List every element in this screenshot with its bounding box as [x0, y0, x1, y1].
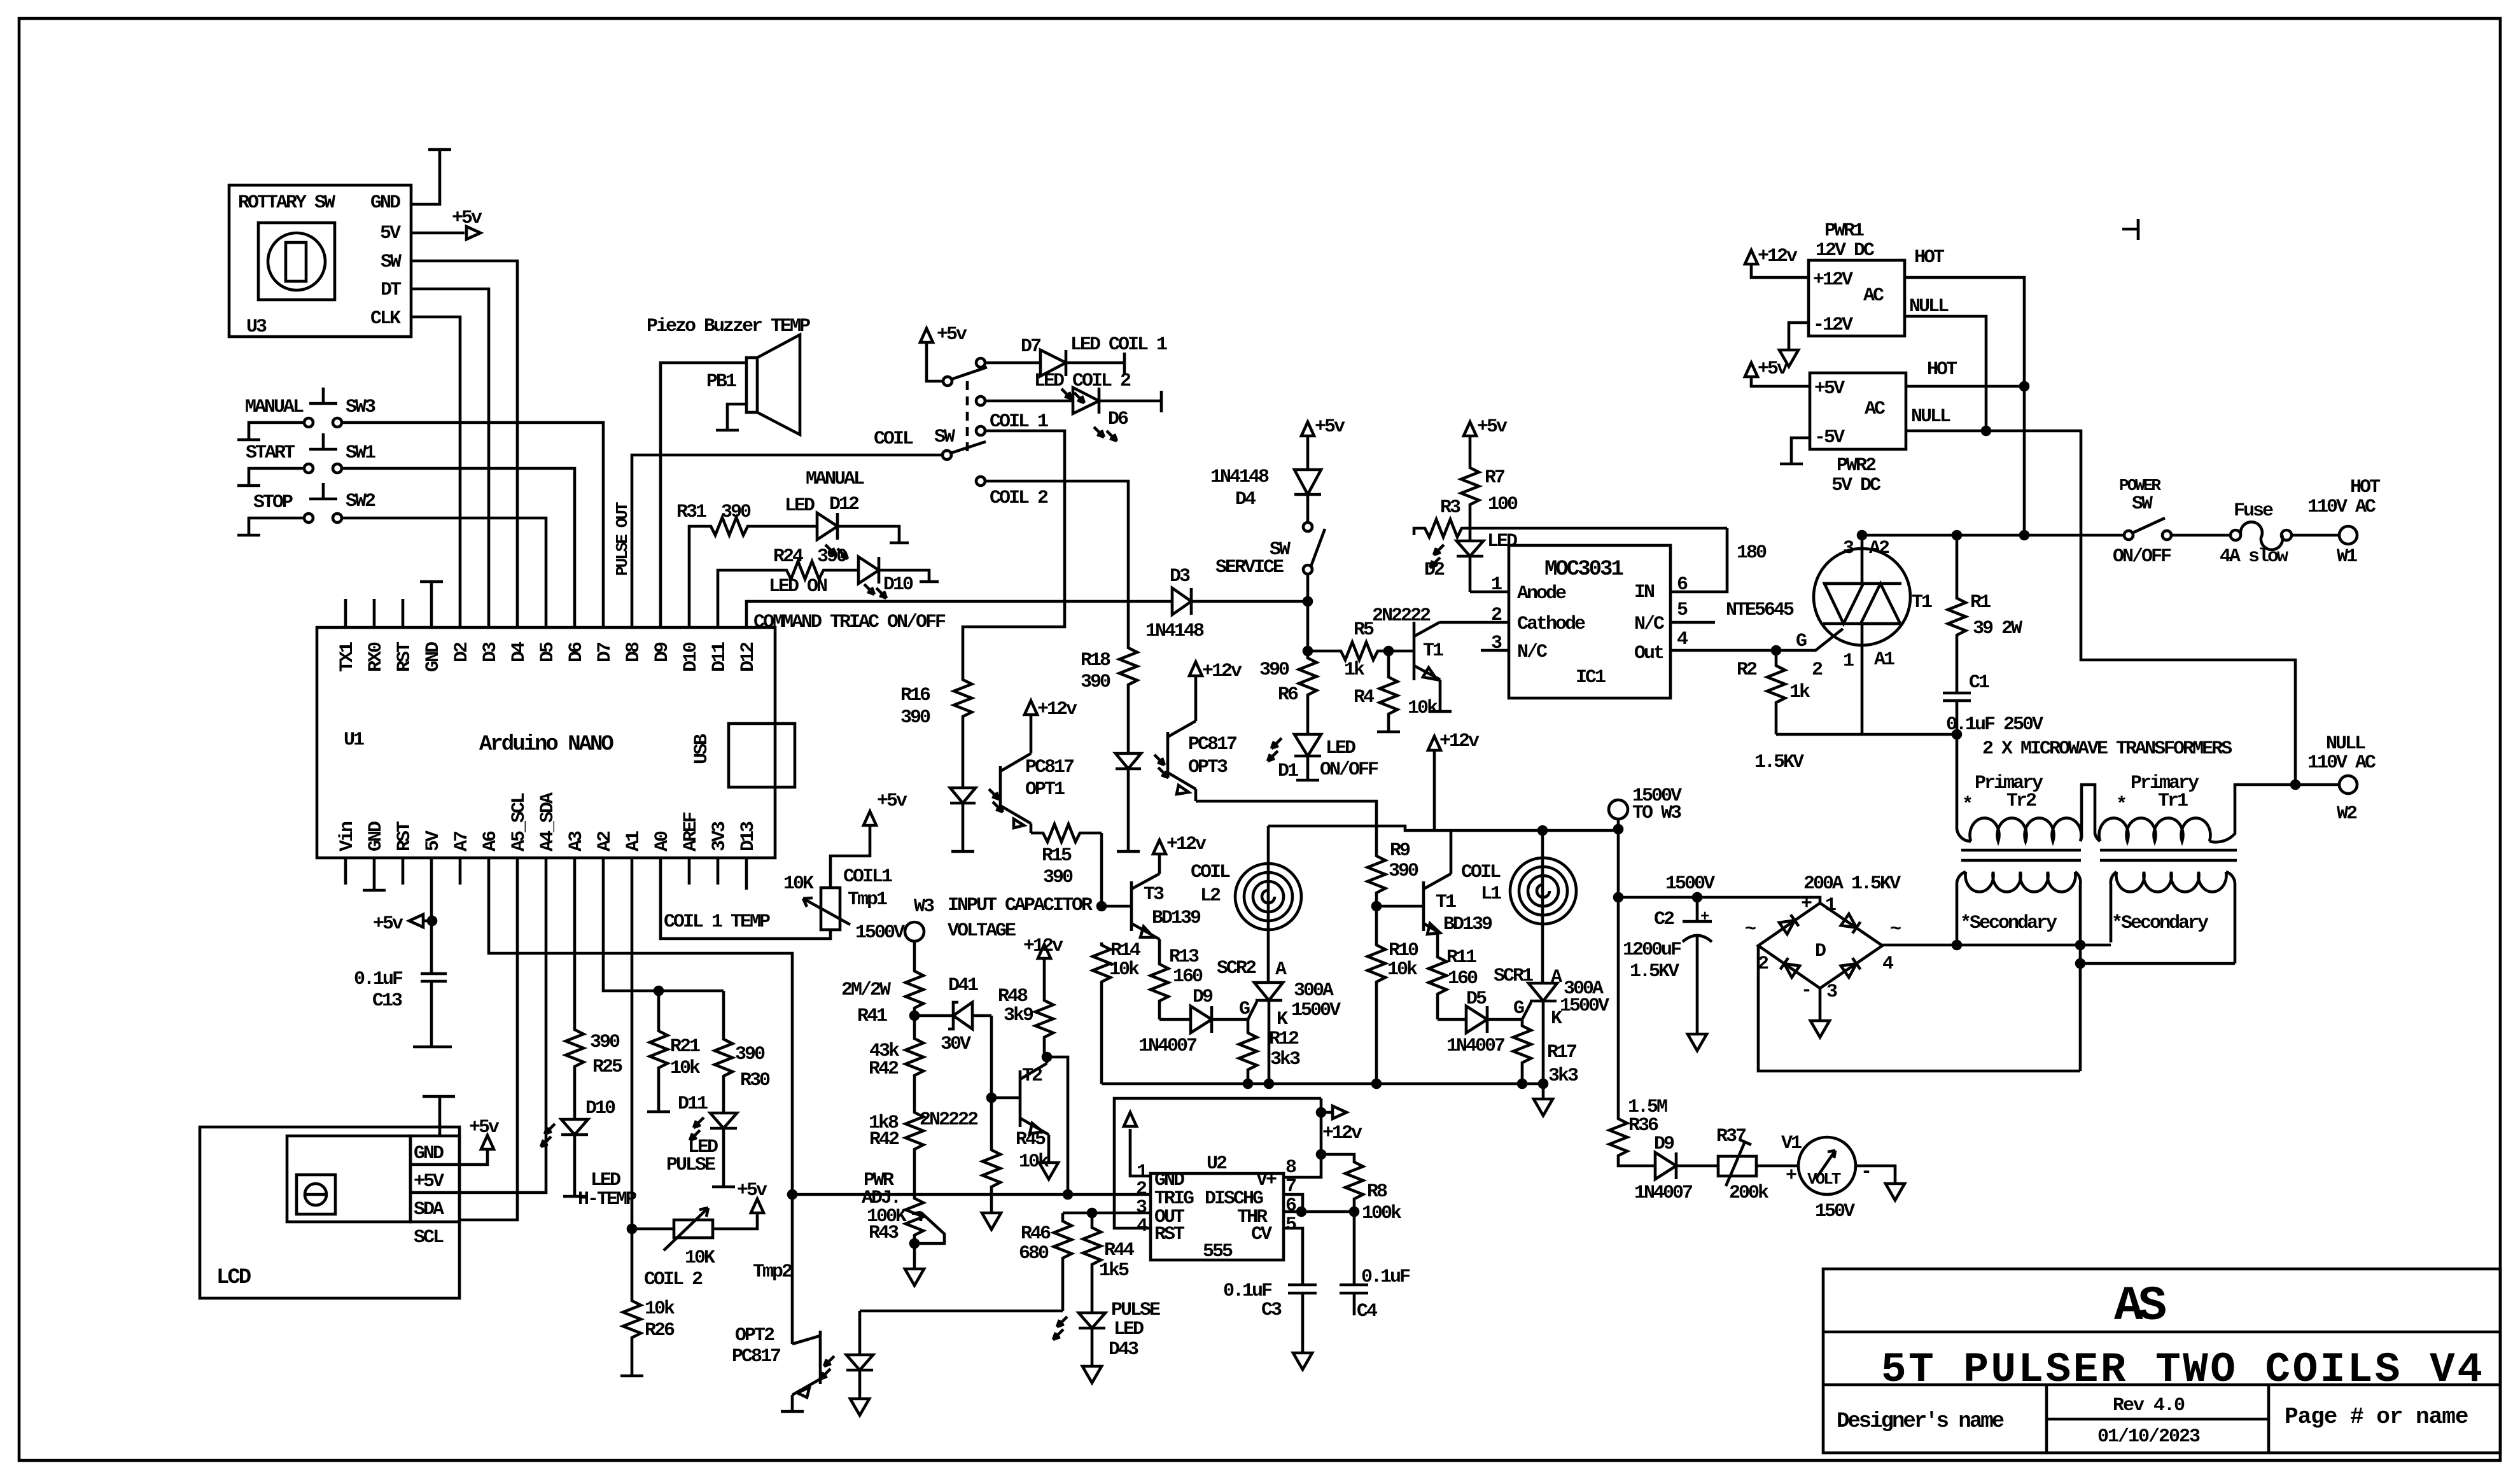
switch SW3 MANUAL — [304, 388, 342, 427]
junction dot TRIG A6 — [788, 1191, 796, 1198]
refdes R13 value — [1169, 946, 1203, 988]
svg-text:RX0: RX0 — [365, 642, 387, 672]
svg-text:A2: A2 — [1869, 538, 1889, 559]
junction dot HOT feed — [2020, 531, 2028, 539]
pin stub RST top — [402, 599, 405, 627]
svg-text:D4: D4 — [1235, 489, 1256, 510]
refdes R11 value — [1446, 947, 1478, 990]
wire COIL 1 to R16 — [963, 431, 1065, 677]
wire L1 feed down — [1541, 830, 1544, 983]
svg-text:+: + — [1801, 893, 1812, 915]
ground mark top right — [2122, 219, 2138, 240]
svg-text:D10: D10 — [883, 574, 913, 596]
bridge pin labels — [1745, 893, 1901, 1003]
terminal bar LED COIL 1 — [1123, 353, 1126, 374]
junction dot W3 — [1614, 825, 1622, 833]
wire W3 to R41 — [913, 941, 916, 969]
diode D4 1N4148 — [1294, 470, 1321, 494]
ground C2 — [1688, 1034, 1707, 1051]
svg-text:AC: AC — [1865, 398, 1886, 420]
capacitor C3 — [1288, 1285, 1317, 1353]
svg-text:3V3: 3V3 — [709, 822, 731, 851]
LCD module body — [200, 1127, 459, 1298]
svg-text:Tmp1: Tmp1 — [848, 889, 887, 911]
svg-text:HOT: HOT — [1914, 247, 1945, 269]
pin labels U1 top row — [337, 641, 759, 672]
svg-text:Page # or name: Page # or name — [2285, 1404, 2468, 1430]
svg-text:PWR1: PWR1 — [1824, 220, 1864, 242]
wire A3 to R25 — [573, 858, 577, 1027]
svg-text:D10: D10 — [680, 642, 702, 672]
svg-text:+5V: +5V — [414, 1171, 444, 1193]
svg-text:01/10/2023: 01/10/2023 — [2097, 1426, 2200, 1448]
ground rail SCR — [1534, 1084, 1553, 1116]
wire OPT3 emitter to R9 — [1196, 801, 1376, 853]
terminal W2 — [2339, 776, 2357, 794]
svg-text:R43: R43 — [869, 1222, 899, 1244]
switch SW1 START — [304, 433, 342, 473]
svg-text:R3: R3 — [1440, 497, 1460, 519]
svg-text:MOC3031: MOC3031 — [1544, 557, 1623, 582]
wire gate to triac — [1776, 629, 1843, 650]
svg-text:LED: LED — [785, 495, 815, 517]
svg-text:390: 390 — [735, 1044, 765, 1065]
svg-text:+12V: +12V — [1813, 269, 1853, 291]
junction dot C2 top — [1693, 893, 1701, 901]
svg-text:AS: AS — [2114, 1279, 2166, 1334]
junction dot THR — [1298, 1208, 1305, 1215]
pin labels 555 left — [1136, 1161, 1194, 1245]
svg-text:C13: C13 — [372, 990, 402, 1012]
svg-text:R2: R2 — [1737, 659, 1757, 681]
svg-text:USB: USB — [691, 734, 713, 764]
wire SW1 to D6 — [342, 468, 575, 627]
+12v arrow R48 — [1038, 944, 1051, 958]
arrow 555 GND — [1124, 1112, 1137, 1126]
svg-text:PULSE: PULSE — [666, 1154, 715, 1176]
svg-text:Anode: Anode — [1517, 583, 1566, 605]
junction dot R8 tee — [1317, 1151, 1325, 1158]
svg-text:R1: R1 — [1970, 592, 1991, 613]
fuse 4A slow — [2230, 522, 2292, 550]
wire LCD GND row to +5v — [459, 1149, 487, 1165]
ground SW3 — [237, 438, 260, 442]
wire service node down — [1306, 601, 1310, 651]
svg-text:VOLT: VOLT — [1807, 1170, 1841, 1189]
svg-text:START: START — [246, 442, 295, 464]
wire 110V HOT line — [1862, 534, 2124, 537]
IC U2 555 body — [1151, 1173, 1284, 1260]
svg-text:~: ~ — [1890, 919, 1901, 941]
label 2N2222 T1 — [1372, 605, 1443, 662]
terminal bar R21 — [647, 1110, 670, 1114]
terminal 1500V TO W3 — [1609, 800, 1628, 819]
wire to LED D6 — [985, 400, 1073, 403]
wire gate SCR2 — [1248, 1002, 1257, 1019]
terminal bar C13 — [413, 1046, 452, 1049]
svg-text:W1: W1 — [2337, 546, 2357, 568]
power module PWR1 body — [1809, 260, 1905, 336]
svg-text:Designer's name: Designer's name — [1837, 1410, 2004, 1434]
label Primary Tr1 — [2116, 773, 2199, 816]
label OPT2 PC817 — [732, 1325, 780, 1368]
transistor T2 2N2222 — [991, 1057, 1049, 1163]
value 1.5M R36 — [1628, 1096, 1667, 1137]
svg-text:D12: D12 — [829, 494, 859, 515]
svg-text:D13: D13 — [738, 822, 759, 851]
svg-text:1: 1 — [1825, 895, 1836, 916]
svg-text:3: 3 — [1843, 538, 1854, 559]
bridge rectifier D — [1758, 903, 1882, 988]
svg-text:1N4148: 1N4148 — [1145, 620, 1204, 642]
pin5 CV stub — [1284, 1228, 1303, 1285]
svg-text:D5: D5 — [1466, 988, 1487, 1010]
wire service to D4 — [1306, 494, 1310, 522]
refdes R24 value — [773, 546, 847, 568]
value 10k R26 — [645, 1298, 675, 1341]
svg-text:10k: 10k — [1019, 1151, 1049, 1173]
+12v arrow OPT3 top — [1189, 662, 1202, 676]
svg-text:3k9: 3k9 — [1004, 1005, 1033, 1026]
svg-text:D5: D5 — [537, 642, 559, 662]
wire fuse to W1 — [2292, 534, 2339, 537]
wire D41 to T2 base — [990, 1016, 993, 1098]
refdes PWR1 — [1816, 220, 1875, 262]
svg-text:POWER: POWER — [2119, 476, 2161, 495]
svg-text:30V: 30V — [941, 1033, 971, 1055]
ground bridge — [1810, 1021, 1830, 1037]
svg-text:COIL: COIL — [1191, 862, 1230, 883]
svg-text:RST: RST — [394, 641, 416, 672]
label LED PULSE — [666, 1137, 718, 1176]
svg-text:R6: R6 — [1278, 684, 1298, 706]
svg-text:COIL 1 TEMP: COIL 1 TEMP — [664, 911, 770, 933]
+12v arrow SCR line — [1428, 736, 1441, 830]
svg-text:R45: R45 — [1016, 1129, 1046, 1151]
svg-text:LED COIL 1: LED COIL 1 — [1070, 334, 1167, 356]
transformer Tr1 secondary coil — [2111, 872, 2235, 963]
junction dot secondary — [1953, 941, 1961, 949]
svg-text:555: 555 — [1203, 1241, 1233, 1263]
svg-text:*: * — [1962, 794, 1971, 816]
wire SW to fuse — [2171, 534, 2231, 537]
pin stub Vin — [344, 858, 347, 885]
terminal W1 — [2339, 526, 2357, 544]
+5v arrow LCD — [481, 1135, 494, 1149]
svg-text:STOP: STOP — [253, 492, 293, 514]
svg-text:Vin: Vin — [337, 822, 358, 851]
svg-text:3: 3 — [1826, 981, 1837, 1003]
svg-text:R16: R16 — [900, 685, 930, 706]
wire A1 to Tmp2 — [631, 858, 634, 1298]
value 43k R42 — [869, 1040, 900, 1080]
wire +12v to PWR1 — [1751, 264, 1809, 277]
svg-text:6: 6 — [1677, 574, 1688, 596]
junction dot TRIG T2 — [1064, 1191, 1072, 1198]
rheostat R37 200k — [1718, 1140, 1798, 1186]
refdes R14 value — [1109, 940, 1141, 981]
svg-text:7: 7 — [1285, 1176, 1296, 1198]
switch COIL SW pole 2 — [942, 442, 986, 459]
resistor R12 — [1239, 1019, 1257, 1084]
wire TRIG net — [792, 1193, 1151, 1196]
svg-text:+12v: +12v — [1439, 731, 1480, 752]
svg-text:-12V: -12V — [1813, 314, 1853, 336]
svg-text:+: + — [1786, 1165, 1796, 1187]
wire PWR2 NULL — [1906, 431, 2295, 785]
svg-text:W2: W2 — [2337, 803, 2357, 825]
svg-text:+5v: +5v — [469, 1117, 500, 1138]
terminal bar LED ON — [920, 580, 939, 584]
svg-text:+5v: +5v — [737, 1180, 767, 1201]
terminal bar OPT2 emitter — [781, 1410, 804, 1413]
svg-text:R17: R17 — [1547, 1042, 1576, 1063]
label LED ON/OFF D1 — [1278, 738, 1378, 782]
svg-text:2: 2 — [1491, 605, 1502, 626]
svg-text:TO W3: TO W3 — [1632, 802, 1681, 824]
wire PWR1 NULL — [1905, 316, 1986, 431]
diode D9 gate SCR2 — [1159, 1006, 1248, 1033]
svg-text:GND: GND — [414, 1143, 444, 1165]
refdes T1 BD139 — [1436, 892, 1492, 935]
svg-text:R46: R46 — [1021, 1223, 1051, 1245]
svg-text:110V AC: 110V AC — [2307, 752, 2376, 774]
svg-text:NULL: NULL — [1909, 296, 1949, 318]
svg-text:+5v: +5v — [1477, 416, 1508, 438]
rail SCR2 SCR1 — [1102, 1082, 1543, 1086]
svg-text:4A slow: 4A slow — [2220, 546, 2288, 568]
ground D43 — [1082, 1366, 1102, 1383]
svg-text:CV: CV — [1251, 1224, 1272, 1245]
svg-text:D3: D3 — [480, 642, 501, 662]
junction dot R41 D41 — [911, 1012, 918, 1019]
svg-text:GND: GND — [423, 642, 444, 672]
svg-text:D7: D7 — [1021, 336, 1040, 358]
pin names MOC left — [1491, 574, 1585, 663]
svg-text:DT: DT — [381, 279, 402, 301]
wire COMMAND TRIAC from D12 — [746, 601, 1172, 627]
resistor R41 — [906, 969, 923, 1036]
svg-text:SW: SW — [381, 251, 402, 273]
refdes T3 — [1144, 884, 1201, 929]
switch COIL SW pole 1 — [943, 367, 987, 386]
resistor R10 — [1368, 906, 1385, 1084]
junction dot R17 rail — [1518, 1080, 1526, 1088]
+5v arrow PWR2 — [1745, 363, 1758, 377]
junction dot sec 1 — [2076, 941, 2084, 949]
svg-text:NULL: NULL — [2326, 733, 2365, 755]
junction dot trunk — [1614, 893, 1622, 901]
svg-text:R14: R14 — [1110, 940, 1141, 962]
svg-text:COIL 2: COIL 2 — [990, 487, 1048, 509]
resistor R11 — [1429, 955, 1446, 1019]
svg-text:D41: D41 — [948, 975, 978, 997]
svg-text:~: ~ — [1745, 919, 1756, 941]
svg-text:SW2: SW2 — [346, 491, 375, 512]
SCR2 — [1254, 983, 1283, 1084]
svg-text:BD139: BD139 — [1152, 907, 1201, 929]
resistor R2 — [1767, 650, 1785, 734]
label PULSE LED D43 — [1109, 1299, 1160, 1361]
svg-text:R8: R8 — [1367, 1181, 1387, 1203]
pin stub RX0 — [373, 599, 376, 627]
diode D9 meter — [1655, 1152, 1718, 1179]
svg-text:R44: R44 — [1104, 1240, 1135, 1261]
svg-text:5V: 5V — [423, 830, 444, 851]
wire Tmp2 left lead — [632, 1228, 674, 1231]
pin labels U1 bottom row — [337, 792, 759, 851]
svg-text:N/C: N/C — [1634, 613, 1665, 635]
junction dot R43 wiper — [911, 1240, 918, 1247]
svg-text:U1: U1 — [344, 729, 364, 751]
terminal bar LED COIL 2 — [1160, 391, 1163, 412]
svg-text:T3: T3 — [1144, 884, 1164, 906]
resistor R9 — [1368, 853, 1385, 895]
wire D6 to terminal — [1099, 400, 1161, 403]
piezo buzzer PB1 — [746, 335, 800, 435]
contact COIL 2 — [976, 477, 985, 486]
coil L1 — [1510, 858, 1576, 924]
LED D43 PULSE — [1053, 1313, 1105, 1366]
svg-text:COIL1: COIL1 — [843, 866, 892, 888]
svg-text:C3: C3 — [1261, 1299, 1282, 1321]
svg-text:200k: 200k — [1729, 1182, 1769, 1204]
wire secondary link — [1882, 944, 2111, 947]
ground OPT2 LED — [850, 1399, 869, 1415]
refdes C2 value — [1623, 909, 1709, 983]
wire COIL 2 to R18 — [985, 481, 1128, 645]
Arduino NANO U1 body — [317, 627, 775, 858]
value 2M/2W R41 — [841, 979, 891, 1027]
ground R45 — [982, 1213, 1001, 1229]
ground PWR2 — [1780, 463, 1803, 466]
terminal bar D11 — [712, 1186, 735, 1189]
svg-text:NULL: NULL — [1911, 406, 1950, 428]
svg-text:HOT: HOT — [1927, 359, 1957, 381]
svg-text:COIL 2: COIL 2 — [644, 1269, 703, 1291]
svg-text:PC817: PC817 — [1188, 734, 1236, 755]
svg-text:+12v: +12v — [1322, 1123, 1362, 1144]
junction dot T2 collector — [1043, 1053, 1051, 1061]
wire PWR2 HOT — [1906, 385, 2024, 388]
wire D11pin to R24 — [718, 570, 784, 627]
svg-text:A6: A6 — [480, 831, 501, 851]
svg-text:1N4007: 1N4007 — [1634, 1182, 1692, 1204]
label COIL 2 Tmp2 — [644, 1261, 792, 1291]
label PC817 OPT1 — [1025, 757, 1074, 801]
svg-text:NTE5645: NTE5645 — [1726, 599, 1794, 621]
pin stub TX1 — [344, 599, 347, 627]
label SCR2 pins — [1217, 958, 1341, 1030]
label 1500V TO W3 — [1632, 785, 1682, 824]
svg-text:Cathode: Cathode — [1517, 613, 1585, 635]
svg-text:D6: D6 — [1108, 409, 1128, 430]
potentiometer Tmp2 10K — [664, 1208, 713, 1250]
pin5 stub NC — [1670, 621, 1715, 624]
svg-text:SW: SW — [934, 426, 955, 448]
label MANUAL LED D12 — [785, 468, 864, 517]
wire 1500V to bridge — [1618, 897, 1820, 903]
coil L2 — [1235, 864, 1301, 930]
svg-text:3k3: 3k3 — [1548, 1065, 1578, 1087]
svg-text:2: 2 — [1812, 659, 1823, 681]
svg-text:+5v: +5v — [877, 790, 907, 812]
terminal bar D12 — [890, 542, 909, 545]
svg-text:BD139: BD139 — [1443, 914, 1492, 935]
+5v arrow R7 — [1464, 422, 1476, 436]
resistor R17 — [1513, 1019, 1531, 1084]
svg-text:1k: 1k — [1344, 659, 1365, 681]
wire U3 DT to D3 — [411, 289, 489, 627]
pin stub A7 — [459, 858, 462, 885]
svg-text:+12v: +12v — [1023, 935, 1063, 957]
svg-text:LED COIL 2: LED COIL 2 — [1034, 370, 1131, 392]
svg-text:GND: GND — [365, 822, 387, 851]
IC MOC3031 body — [1509, 545, 1670, 698]
wire C1 node to Tr2 primary — [1956, 734, 1959, 826]
svg-text:10k: 10k — [1408, 697, 1438, 719]
svg-text:R41: R41 — [857, 1005, 887, 1027]
junction dot T1 base — [1373, 902, 1380, 910]
svg-text:1500V: 1500V — [855, 922, 905, 944]
svg-text:LED: LED — [1114, 1319, 1144, 1340]
capacitor C13 — [421, 974, 447, 1047]
USB connector box — [729, 724, 795, 787]
svg-text:R11: R11 — [1446, 947, 1476, 969]
svg-text:160: 160 — [1173, 966, 1203, 988]
svg-text:D3: D3 — [1170, 566, 1190, 587]
ground C3 — [1293, 1353, 1312, 1369]
svg-text:D2: D2 — [451, 642, 473, 662]
triac T1 NTE5645 — [1814, 549, 1910, 645]
svg-text:1: 1 — [1843, 650, 1854, 672]
svg-text:8: 8 — [1285, 1157, 1296, 1179]
svg-text:R5: R5 — [1354, 619, 1374, 641]
svg-text:VOLTAGE: VOLTAGE — [948, 920, 1016, 942]
pin7 DISCHG stub — [1284, 1194, 1303, 1212]
wire SW1 to ground — [249, 468, 304, 485]
svg-text:L2: L2 — [1200, 885, 1221, 907]
refdes R44 value — [1099, 1240, 1135, 1282]
+5v arrow Tmp1 — [864, 811, 876, 825]
svg-text:390: 390 — [817, 546, 847, 568]
capacitor C1 — [1943, 693, 1971, 734]
refdes R21 value — [670, 1036, 701, 1079]
svg-text:R42: R42 — [869, 1129, 899, 1151]
title block frame — [1823, 1269, 2500, 1453]
core Tr2 — [1961, 850, 2081, 860]
svg-text:390: 390 — [1389, 860, 1418, 882]
svg-text:LED ON: LED ON — [769, 576, 827, 598]
svg-text:+5V: +5V — [1814, 378, 1845, 400]
wire W3 stub — [1617, 819, 1620, 829]
wire R46 to OPT2 LED — [860, 1310, 1063, 1313]
terminal bar OPT3 LED — [1117, 850, 1140, 853]
wire bridge minus to ground — [1819, 988, 1822, 1021]
svg-text:160: 160 — [1448, 968, 1478, 990]
svg-text:A5_SCL: A5_SCL — [508, 793, 530, 851]
svg-text:100: 100 — [1488, 494, 1518, 515]
wire PWR1 -12V to ground — [1789, 323, 1809, 350]
svg-text:A7: A7 — [451, 832, 473, 851]
svg-text:R7: R7 — [1485, 467, 1504, 489]
wire LED ON to terminal — [879, 570, 929, 580]
svg-text:SCR2: SCR2 — [1217, 958, 1256, 979]
svg-text:+5v: +5v — [452, 207, 482, 229]
wire bridge loop — [1758, 946, 2080, 1071]
refdes R2 value — [1737, 659, 1823, 703]
svg-text:R30: R30 — [740, 1070, 770, 1091]
